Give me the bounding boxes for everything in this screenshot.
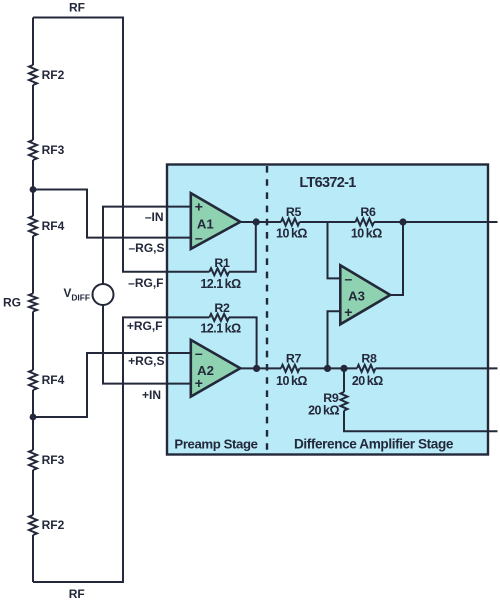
wire A3 output feedback to node xyxy=(390,222,403,295)
svg-text:LT6372-1: LT6372-1 xyxy=(299,175,356,191)
resistor R8 zigzag xyxy=(357,365,375,372)
svg-text:+IN: +IN xyxy=(142,388,161,402)
wire R2 right down to A2 output node xyxy=(229,317,257,368)
resistor RG zigzag xyxy=(29,294,37,312)
wire node B to +RG,S (A2 inverting input) xyxy=(33,353,191,417)
svg-text:A1: A1 xyxy=(197,217,214,232)
svg-text:10 kΩ: 10 kΩ xyxy=(276,374,307,388)
resistor RF3 top zigzag xyxy=(29,140,37,160)
resistor RF4 top zigzag xyxy=(29,216,37,236)
op-amp A1 xyxy=(191,193,241,249)
wire A3 non-inverting input branch xyxy=(328,311,341,368)
svg-text:–: – xyxy=(345,271,353,287)
resistor R5 zigzag xyxy=(281,219,299,226)
svg-text:Difference Amplifier Stage: Difference Amplifier Stage xyxy=(294,437,454,452)
resistor R1 zigzag xyxy=(209,268,229,275)
junction dot A3 + branch xyxy=(324,365,331,372)
svg-text:+: + xyxy=(344,304,352,320)
svg-text:10 kΩ: 10 kΩ xyxy=(276,227,307,241)
svg-text:RF: RF xyxy=(69,1,85,15)
svg-text:–RG,F: –RG,F xyxy=(128,276,163,290)
wire +IN to V_DIFF bottom xyxy=(103,305,191,384)
svg-text:–: – xyxy=(195,230,203,246)
svg-text:–RG,S: –RG,S xyxy=(128,241,164,255)
svg-text:A2: A2 xyxy=(197,363,214,378)
junction dot R6 output node xyxy=(399,218,406,225)
wire R9 bottom to right edge xyxy=(344,411,498,432)
resistor R6 zigzag xyxy=(356,219,374,226)
svg-text:+RG,S: +RG,S xyxy=(128,354,164,368)
svg-text:R1: R1 xyxy=(214,256,230,270)
wire top RF loop: left rail top, top wire, right rail down to -RG,F into R1 xyxy=(33,18,209,272)
junction dot R9 branch xyxy=(340,365,347,372)
resistor RF2 bottom zigzag xyxy=(29,515,37,535)
junction dot A2 output xyxy=(253,365,260,372)
svg-text:R2: R2 xyxy=(214,301,230,315)
resistor R2 zigzag xyxy=(209,314,229,321)
svg-text:R5: R5 xyxy=(286,205,302,219)
wire R7/R8 row y=368.4 segments xyxy=(240,367,497,369)
svg-text:RF3: RF3 xyxy=(42,453,65,467)
source V_DIFF xyxy=(93,284,114,305)
junction dot A1 output xyxy=(253,218,260,225)
svg-text:RG: RG xyxy=(3,296,21,310)
svg-text:RF2: RF2 xyxy=(42,518,65,532)
resistor RF2 top zigzag xyxy=(29,65,37,85)
wire left rail segments between resistors xyxy=(32,18,34,583)
wire bottom RF loop: bottom wire, right rail up to +RG,F into R2 xyxy=(33,317,209,582)
wire R1 right to A1 output node xyxy=(229,222,256,272)
wire R9 branch down xyxy=(343,368,345,392)
resistor RF3 bottom zigzag xyxy=(29,450,37,470)
svg-text:R8: R8 xyxy=(361,351,377,365)
svg-text:RF3: RF3 xyxy=(42,143,65,157)
svg-text:+RG,F: +RG,F xyxy=(127,319,163,333)
node A junction dot xyxy=(30,186,37,193)
IC body LT6372-1 box xyxy=(167,165,488,455)
svg-text:12.1 kΩ: 12.1 kΩ xyxy=(200,321,241,335)
resistor R9 zigzag xyxy=(341,392,348,411)
resistor RF4 bottom zigzag xyxy=(29,370,37,390)
svg-text:–IN: –IN xyxy=(145,210,164,224)
resistor R7 zigzag xyxy=(281,365,299,372)
op-amp A2 xyxy=(191,340,241,397)
svg-text:RF: RF xyxy=(69,587,85,601)
wire A3 inverting input branch xyxy=(328,222,341,278)
svg-text:12.1 kΩ: 12.1 kΩ xyxy=(200,277,241,291)
svg-text:–: – xyxy=(195,345,203,361)
svg-text:R6: R6 xyxy=(360,205,376,219)
svg-text:RF4: RF4 xyxy=(42,219,65,233)
wire output row y=222 segments xyxy=(240,221,497,223)
svg-text:20 kΩ: 20 kΩ xyxy=(352,374,383,388)
wire -IN to V_DIFF top xyxy=(103,207,191,285)
svg-text:R7: R7 xyxy=(286,351,302,365)
svg-text:RF2: RF2 xyxy=(42,68,65,82)
svg-text:+: + xyxy=(195,199,203,215)
svg-text:20 kΩ: 20 kΩ xyxy=(308,403,339,417)
wire node A to -RG,S (A1 inverting input) xyxy=(33,190,191,238)
stage divider dashed line xyxy=(266,166,268,454)
svg-text:A3: A3 xyxy=(348,289,365,304)
svg-text:RF4: RF4 xyxy=(42,373,65,387)
node B junction dot xyxy=(30,414,37,421)
op-amp A3 xyxy=(340,265,390,324)
svg-text:Preamp Stage: Preamp Stage xyxy=(174,436,257,451)
svg-text:10 kΩ: 10 kΩ xyxy=(351,227,382,241)
